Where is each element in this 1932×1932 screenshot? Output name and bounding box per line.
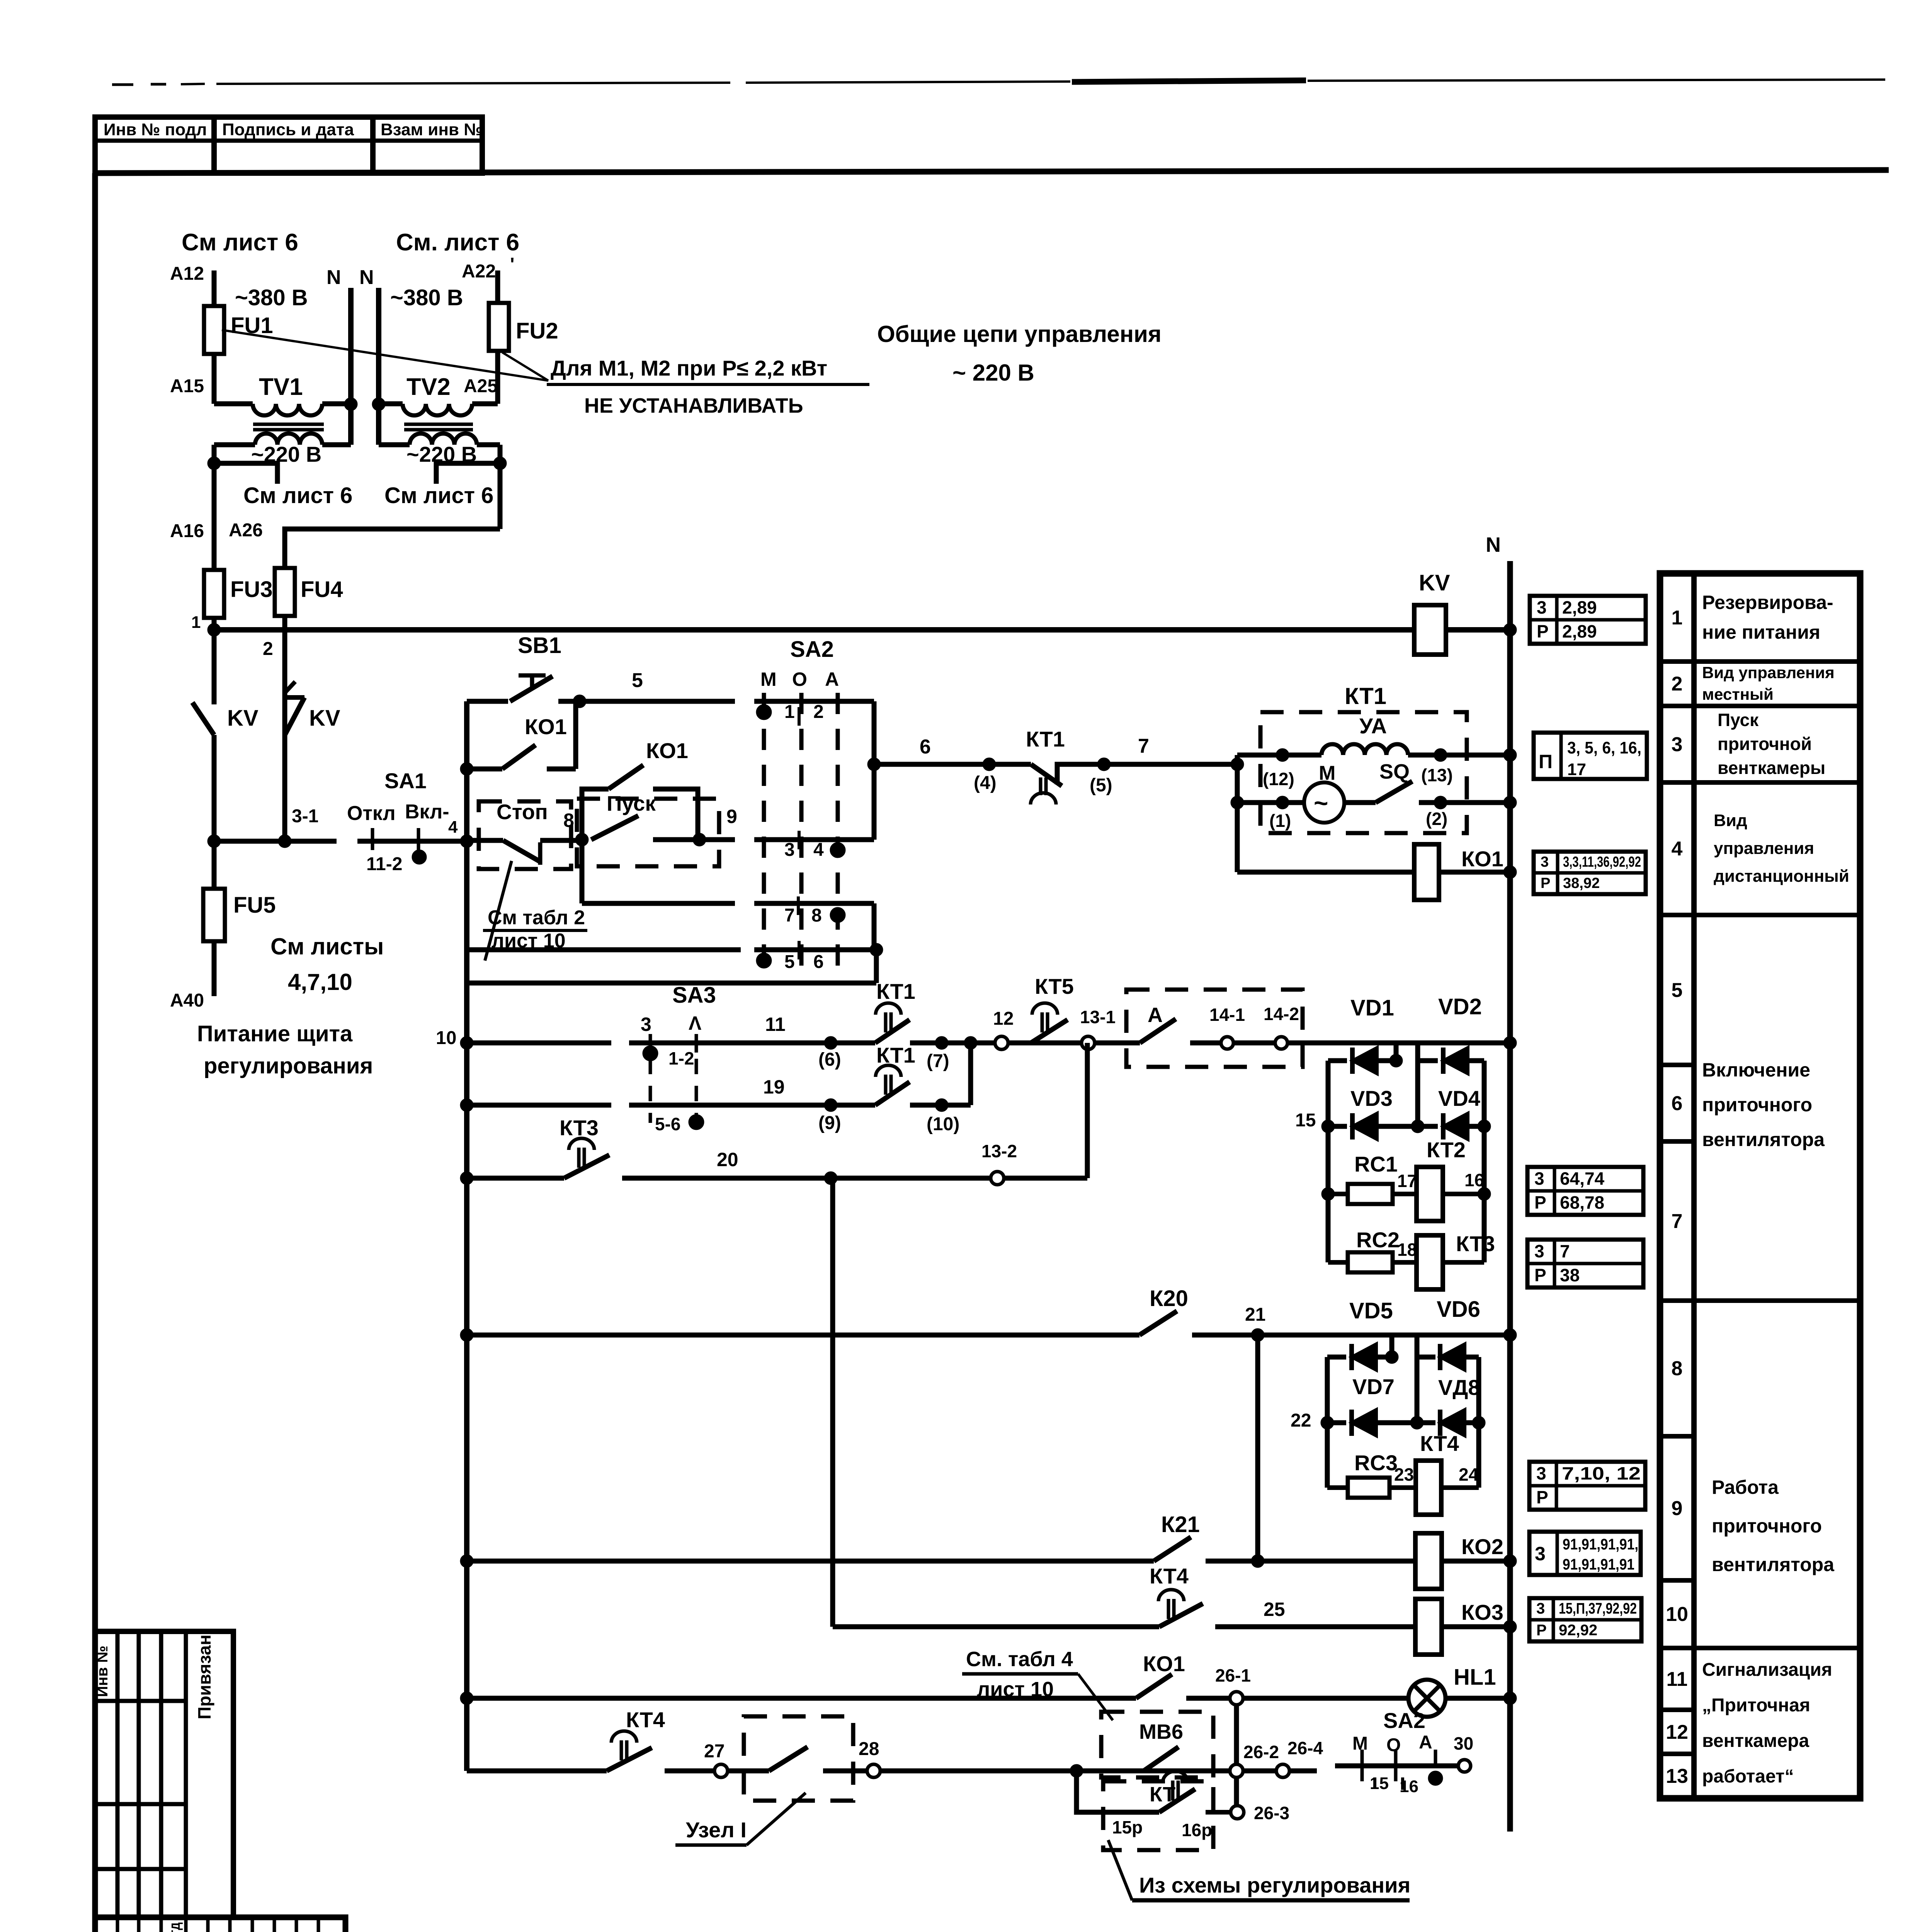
svg-text:КТ4: КТ4 — [1150, 1564, 1189, 1588]
svg-text:Р: Р — [1536, 1622, 1547, 1639]
svg-text:Взам инв №: Взам инв № — [381, 120, 483, 139]
svg-text:Λ: Λ — [689, 1012, 702, 1034]
svg-text:N: N — [327, 266, 341, 289]
svg-text:15р: 15р — [1112, 1817, 1143, 1837]
svg-text:6: 6 — [1672, 1092, 1683, 1115]
svg-text:23: 23 — [1394, 1464, 1414, 1485]
svg-text:VD2: VD2 — [1438, 994, 1482, 1019]
svg-text:17: 17 — [1397, 1171, 1417, 1191]
svg-text:КТ2: КТ2 — [1427, 1138, 1466, 1162]
svg-text:Включение: Включение — [1702, 1059, 1810, 1081]
svg-text:14-1: 14-1 — [1209, 1005, 1245, 1025]
svg-text:FU2: FU2 — [516, 318, 558, 344]
svg-text:приточного: приточного — [1712, 1515, 1822, 1537]
svg-text:КТ3: КТ3 — [1456, 1231, 1495, 1256]
svg-text:Инв № подл: Инв № подл — [104, 120, 207, 139]
svg-text:А26: А26 — [229, 520, 263, 541]
svg-text:22: 22 — [1291, 1410, 1311, 1431]
svg-text:ние питания: ние питания — [1702, 621, 1820, 643]
svg-text:26-1: 26-1 — [1215, 1665, 1251, 1685]
svg-text:SQ: SQ — [1379, 760, 1410, 783]
svg-text:А15: А15 — [170, 376, 204, 396]
svg-text:КТ1: КТ1 — [1345, 683, 1386, 709]
svg-text:5: 5 — [1672, 979, 1683, 1002]
svg-text:VD4: VD4 — [1438, 1086, 1480, 1111]
svg-text:См лист 6: См лист 6 — [243, 483, 352, 508]
svg-text:2: 2 — [813, 702, 824, 722]
svg-text:Работа: Работа — [1712, 1476, 1779, 1498]
svg-text:SB1: SB1 — [518, 633, 561, 658]
svg-text:Общие цепи управления: Общие цепи управления — [877, 321, 1162, 347]
svg-text:Узел I: Узел I — [686, 1818, 747, 1842]
svg-text:Откл: Откл — [347, 802, 396, 825]
svg-text:25: 25 — [1264, 1599, 1285, 1620]
svg-text:1: 1 — [1672, 607, 1683, 629]
svg-text:': ' — [510, 254, 514, 275]
svg-text:(5): (5) — [1090, 775, 1112, 796]
svg-text:А: А — [1419, 1732, 1432, 1753]
svg-text:16: 16 — [1464, 1170, 1484, 1190]
svg-text:11: 11 — [1667, 1668, 1688, 1690]
svg-text:38: 38 — [1560, 1265, 1580, 1285]
svg-text:SA2: SA2 — [790, 637, 834, 662]
svg-text:См. лист 6: См. лист 6 — [396, 229, 519, 256]
svg-text:TV1: TV1 — [259, 374, 303, 400]
svg-text:3: 3 — [1536, 1600, 1545, 1617]
svg-text:КТ1: КТ1 — [1026, 727, 1065, 751]
svg-text:4: 4 — [813, 840, 824, 860]
svg-text:КТ5: КТ5 — [1035, 974, 1074, 998]
svg-text:15,П,37,92,92: 15,П,37,92,92 — [1559, 1600, 1637, 1617]
svg-text:3-1: 3-1 — [292, 806, 318, 827]
svg-text:VД8: VД8 — [1438, 1375, 1480, 1400]
svg-text:См лист 6: См лист 6 — [182, 229, 298, 256]
svg-text:работает“: работает“ — [1702, 1766, 1794, 1787]
svg-text:RC3: RC3 — [1354, 1451, 1398, 1475]
svg-text:2: 2 — [263, 639, 273, 659]
svg-text:КТ3: КТ3 — [560, 1116, 599, 1140]
svg-text:1: 1 — [784, 702, 795, 722]
svg-text:5: 5 — [632, 669, 643, 692]
svg-text:Зам нач отд: Зам нач отд — [166, 1922, 183, 1932]
svg-text:3, 5, 6, 16,: 3, 5, 6, 16, — [1567, 738, 1641, 757]
svg-text:А25: А25 — [464, 376, 498, 396]
svg-text:FU4: FU4 — [301, 577, 343, 602]
svg-text:~ 220 В: ~ 220 В — [952, 360, 1034, 386]
svg-text:(6): (6) — [818, 1049, 841, 1070]
svg-text:VD5: VD5 — [1349, 1298, 1393, 1323]
svg-text:38,92: 38,92 — [1563, 875, 1600, 891]
svg-text:8: 8 — [811, 905, 822, 926]
svg-text:3: 3 — [641, 1014, 651, 1035]
svg-text:3: 3 — [1534, 1168, 1544, 1189]
svg-text:16р: 16р — [1182, 1820, 1212, 1840]
svg-text:Р: Р — [1541, 875, 1550, 891]
svg-text:местный: местный — [1702, 685, 1774, 703]
svg-text:„Приточная: „Приточная — [1702, 1695, 1810, 1716]
svg-text:КО3: КО3 — [1461, 1600, 1503, 1624]
svg-text:Для М1, М2 при Р≤ 2,2 кВт: Для М1, М2 при Р≤ 2,2 кВт — [551, 356, 827, 380]
svg-text:Подпись и дата: Подпись и дата — [222, 120, 354, 139]
svg-text:дистанционный: дистанционный — [1714, 867, 1849, 886]
svg-text:Р: Р — [1536, 1487, 1548, 1507]
svg-text:КО1: КО1 — [1143, 1651, 1185, 1676]
svg-text:3: 3 — [1534, 1241, 1544, 1261]
svg-text:30: 30 — [1454, 1733, 1473, 1753]
svg-text:11: 11 — [765, 1014, 786, 1035]
svg-text:приточного: приточного — [1702, 1094, 1812, 1116]
svg-text:1: 1 — [191, 613, 201, 632]
svg-text:КТ4: КТ4 — [626, 1708, 665, 1732]
svg-text:приточной: приточной — [1718, 734, 1812, 754]
svg-text:3: 3 — [1672, 733, 1683, 756]
svg-text:К20: К20 — [1150, 1286, 1188, 1311]
svg-text:Вид: Вид — [1714, 811, 1747, 830]
svg-text:(1): (1) — [1269, 811, 1291, 831]
svg-text:91,91,91,91: 91,91,91,91 — [1563, 1556, 1634, 1573]
svg-text:91,91,91,91,: 91,91,91,91, — [1563, 1536, 1638, 1553]
svg-text:VD6: VD6 — [1437, 1297, 1480, 1322]
svg-text:VD7: VD7 — [1352, 1374, 1395, 1399]
svg-text:НЕ УСТАНАВЛИВАТЬ: НЕ УСТАНАВЛИВАТЬ — [584, 394, 803, 417]
svg-text:6: 6 — [813, 952, 824, 972]
svg-text:Пуск: Пуск — [607, 791, 656, 815]
svg-text:27: 27 — [704, 1741, 724, 1762]
svg-text:(7): (7) — [927, 1051, 949, 1071]
svg-text:венткамеры: венткамеры — [1718, 758, 1825, 778]
svg-text:7: 7 — [1138, 735, 1149, 757]
svg-text:15: 15 — [1295, 1110, 1316, 1131]
svg-text:Из схемы регулирования: Из схемы регулирования — [1139, 1873, 1410, 1897]
svg-text:SA3: SA3 — [672, 983, 716, 1008]
svg-text:Пуск: Пуск — [1718, 710, 1759, 730]
svg-text:КТ1: КТ1 — [876, 1043, 915, 1067]
svg-text:VD3: VD3 — [1350, 1086, 1393, 1111]
svg-text:3,3,11,36,92,92: 3,3,11,36,92,92 — [1563, 854, 1641, 870]
svg-text:13: 13 — [1666, 1765, 1688, 1787]
svg-text:А16: А16 — [170, 521, 204, 541]
svg-text:17: 17 — [1567, 760, 1586, 779]
svg-text:~380 В: ~380 В — [235, 285, 308, 310]
svg-text:КТ1: КТ1 — [876, 979, 915, 1003]
svg-text:13-2: 13-2 — [981, 1141, 1017, 1161]
svg-text:М: М — [760, 668, 777, 690]
svg-text:5: 5 — [784, 952, 795, 972]
svg-text:~: ~ — [1314, 789, 1328, 817]
svg-text:О: О — [792, 668, 807, 690]
svg-text:3: 3 — [1541, 854, 1549, 870]
svg-text:KV: KV — [227, 706, 259, 731]
svg-text:10: 10 — [1666, 1603, 1688, 1626]
svg-text:П: П — [1539, 751, 1553, 772]
svg-text:18: 18 — [1397, 1240, 1417, 1260]
svg-text:4: 4 — [1672, 838, 1683, 860]
svg-text:О: О — [1386, 1735, 1401, 1755]
svg-text:19: 19 — [763, 1076, 785, 1098]
svg-text:6: 6 — [920, 736, 931, 758]
svg-text:4: 4 — [448, 818, 458, 837]
svg-text:венткамера: венткамера — [1702, 1731, 1809, 1751]
svg-text:2,89: 2,89 — [1562, 597, 1597, 617]
svg-text:См листы: См листы — [270, 934, 384, 959]
svg-text:15: 15 — [1370, 1774, 1389, 1793]
svg-text:3: 3 — [1535, 1543, 1546, 1565]
svg-text:КО1: КО1 — [525, 714, 567, 739]
svg-text:Привязан: Привязан — [194, 1634, 214, 1719]
svg-text:1-2: 1-2 — [668, 1048, 694, 1068]
svg-text:68,78: 68,78 — [1560, 1192, 1604, 1213]
svg-text:вентилятора: вентилятора — [1712, 1554, 1835, 1575]
svg-text:КТ4: КТ4 — [1420, 1431, 1459, 1456]
svg-text:14-2: 14-2 — [1264, 1004, 1299, 1024]
svg-text:24: 24 — [1459, 1464, 1479, 1485]
svg-text:КО2: КО2 — [1461, 1534, 1503, 1559]
svg-text:12: 12 — [993, 1009, 1014, 1029]
svg-text:VD1: VD1 — [1350, 995, 1394, 1020]
svg-text:N: N — [359, 266, 374, 289]
svg-text:4,7,10: 4,7,10 — [288, 969, 352, 995]
svg-text:Р: Р — [1534, 1265, 1546, 1285]
svg-text:92,92: 92,92 — [1559, 1622, 1597, 1639]
svg-text:3: 3 — [1536, 1463, 1546, 1483]
svg-text:(2): (2) — [1426, 809, 1447, 829]
svg-text:управления: управления — [1714, 839, 1814, 858]
svg-text:64,74: 64,74 — [1560, 1168, 1605, 1189]
svg-text:УА: УА — [1359, 714, 1387, 738]
svg-text:RC2: RC2 — [1356, 1228, 1400, 1252]
svg-text:3: 3 — [1537, 597, 1547, 617]
svg-text:10: 10 — [436, 1028, 456, 1048]
svg-text:TV2: TV2 — [406, 374, 451, 400]
svg-text:3: 3 — [784, 840, 795, 860]
svg-text:(4): (4) — [974, 773, 997, 793]
svg-text:КО1: КО1 — [1461, 847, 1503, 871]
svg-text:А22: А22 — [462, 261, 496, 282]
svg-text:8: 8 — [1672, 1357, 1683, 1380]
svg-text:26-2: 26-2 — [1243, 1742, 1279, 1762]
svg-text:А40: А40 — [170, 990, 204, 1011]
svg-text:8: 8 — [563, 810, 574, 831]
svg-text:KV: KV — [1419, 570, 1450, 595]
svg-text:Вид управления: Вид управления — [1702, 663, 1835, 682]
svg-text:7: 7 — [1560, 1241, 1570, 1261]
svg-text:КО1: КО1 — [646, 738, 688, 763]
svg-text:SA2: SA2 — [1383, 1708, 1425, 1733]
svg-text:26-4: 26-4 — [1287, 1738, 1323, 1758]
svg-text:21: 21 — [1245, 1304, 1265, 1325]
svg-text:~380 В: ~380 В — [390, 285, 463, 310]
svg-text:FU3: FU3 — [230, 577, 273, 602]
svg-text:7: 7 — [1672, 1210, 1683, 1233]
svg-text:(10): (10) — [927, 1114, 959, 1134]
svg-text:(9): (9) — [818, 1113, 841, 1133]
svg-text:9: 9 — [726, 806, 737, 827]
svg-text:М: М — [1319, 762, 1335, 784]
svg-text:Р: Р — [1537, 621, 1549, 641]
svg-text:Вкл-: Вкл- — [405, 801, 449, 823]
svg-text:См. табл 4: См. табл 4 — [966, 1648, 1073, 1671]
svg-text:28: 28 — [859, 1739, 879, 1759]
svg-text:7,10, 12: 7,10, 12 — [1562, 1463, 1641, 1483]
svg-text:Питание щита: Питание щита — [197, 1021, 353, 1046]
svg-text:(13): (13) — [1421, 765, 1453, 785]
svg-text:НL1: НL1 — [1454, 1665, 1496, 1690]
svg-text:13-1: 13-1 — [1080, 1007, 1116, 1027]
svg-text:11-2: 11-2 — [366, 854, 402, 874]
svg-text:5-6: 5-6 — [655, 1114, 680, 1134]
svg-text:А12: А12 — [170, 264, 204, 284]
svg-text:К21: К21 — [1161, 1512, 1200, 1537]
svg-text:Сигнализация: Сигнализация — [1702, 1660, 1832, 1680]
svg-text:регулирования: регулирования — [204, 1053, 373, 1078]
svg-text:RC1: RC1 — [1354, 1152, 1398, 1176]
svg-text:20: 20 — [717, 1149, 738, 1170]
svg-text:(12): (12) — [1263, 769, 1294, 789]
svg-text:А: А — [1148, 1003, 1163, 1027]
svg-text:Р: Р — [1534, 1192, 1546, 1213]
svg-text:12: 12 — [1666, 1721, 1688, 1743]
svg-text:N: N — [1486, 533, 1501, 556]
svg-text:См лист 6: См лист 6 — [384, 483, 493, 508]
svg-text:лист 10: лист 10 — [977, 1678, 1054, 1701]
svg-text:См табл 2: См табл 2 — [488, 906, 585, 929]
svg-text:7: 7 — [784, 905, 795, 926]
svg-text:2: 2 — [1672, 673, 1683, 695]
svg-text:2,89: 2,89 — [1562, 621, 1597, 641]
svg-text:Инв №: Инв № — [94, 1646, 111, 1697]
svg-text:SA1: SA1 — [384, 769, 427, 793]
svg-text:вентилятора: вентилятора — [1702, 1129, 1825, 1150]
svg-text:26-3: 26-3 — [1254, 1803, 1289, 1823]
svg-text:А: А — [825, 668, 839, 690]
svg-text:Резервирова-: Резервирова- — [1702, 592, 1833, 613]
svg-text:М: М — [1352, 1733, 1368, 1754]
svg-text:9: 9 — [1672, 1497, 1683, 1520]
svg-text:МВ6: МВ6 — [1139, 1720, 1183, 1743]
svg-text:FU5: FU5 — [233, 893, 276, 918]
svg-text:KV: KV — [309, 706, 340, 731]
